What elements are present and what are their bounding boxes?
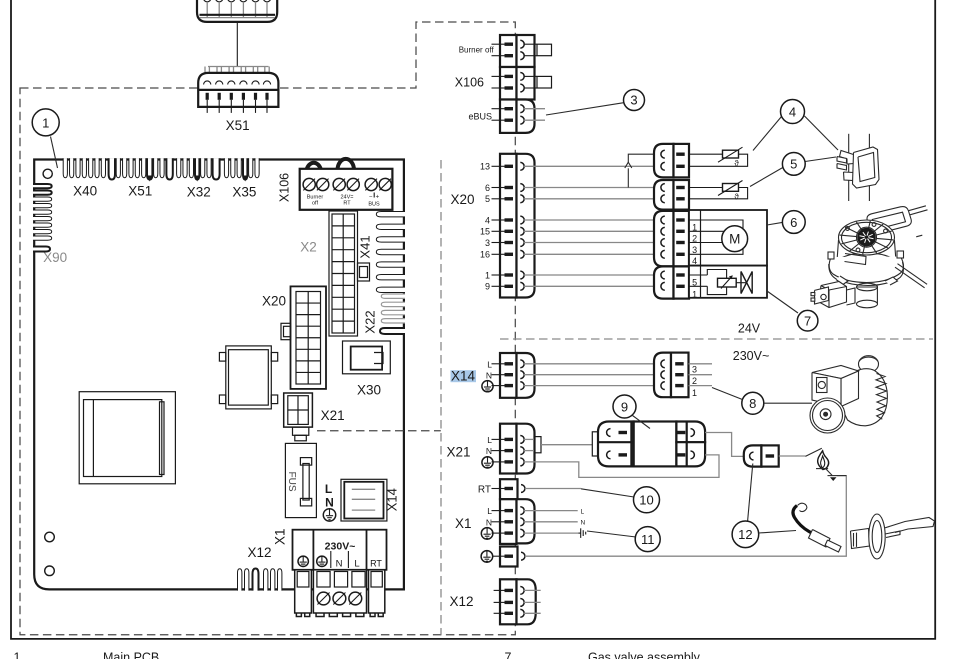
module 9 bracket (592, 432, 598, 456)
svg-text:N: N (325, 496, 334, 510)
svg-text:ϑ: ϑ (734, 193, 739, 202)
X51 divider (198, 89, 278, 91)
relay (226, 346, 271, 409)
callout line 9 (633, 416, 651, 429)
X20 pin 3 (492, 242, 506, 244)
edge finger slot (95, 158, 99, 178)
edge notch (195, 158, 199, 179)
fan flange ring (829, 257, 903, 283)
plug cup 1 (203, 0, 211, 2)
edge finger slot (129, 158, 133, 178)
NTC resistor (723, 184, 739, 192)
plug cup 2 (215, 0, 223, 2)
callout line 1 (51, 137, 58, 169)
X14 highlight (451, 370, 477, 382)
X20 pin 16 (492, 253, 506, 255)
connector X21 schematic (500, 424, 517, 474)
X14 earth symbol (482, 381, 493, 392)
earth symbol pcb (323, 509, 335, 521)
module 9 right connector (676, 422, 705, 443)
X51 pin (230, 93, 233, 100)
wire X20-13 to NTC1 (524, 165, 662, 167)
edge finger slot (207, 158, 211, 178)
NTC leads (689, 187, 723, 189)
callout line 12b (759, 531, 796, 534)
svg-text:24V=: 24V= (341, 194, 354, 200)
ignition cable (793, 506, 813, 534)
valve wires (689, 274, 707, 276)
pump connector pair (654, 353, 671, 398)
earth glyph wire end (579, 532, 581, 534)
mated pin (661, 195, 665, 203)
mated pin (661, 216, 665, 224)
svg-text:7: 7 (505, 651, 512, 659)
svg-text:X2: X2 (300, 240, 317, 255)
X14 pin (492, 363, 506, 365)
svg-text:N: N (486, 370, 492, 380)
svg-text:X1: X1 (455, 516, 472, 531)
callout 9 (613, 395, 636, 418)
mated pin (661, 282, 665, 290)
plug base lines (200, 14, 276, 16)
electrode flange (869, 514, 885, 559)
edge finger slot (224, 158, 228, 178)
connector X20 schematic (500, 154, 517, 298)
X51 socket cup (240, 81, 247, 85)
svg-text:X14: X14 (451, 369, 476, 384)
svg-text:X22: X22 (363, 310, 378, 333)
X51 socket cup (228, 81, 235, 85)
motor M (722, 226, 748, 252)
connector X14 schematic (500, 353, 517, 398)
X21 pin (492, 461, 506, 463)
connector X106 schematic section burner-off (500, 35, 517, 67)
svg-text:Burner off: Burner off (459, 46, 495, 55)
X21 pcb tab (293, 427, 309, 435)
fan wires (689, 220, 743, 229)
svg-text:1: 1 (14, 651, 21, 659)
mated pin (661, 271, 665, 279)
svg-text:1: 1 (692, 289, 697, 299)
svg-text:RT: RT (478, 485, 491, 496)
mated connector pair (654, 180, 674, 210)
comb arrow (243, 176, 248, 182)
mated pin (661, 227, 665, 235)
svg-text:10: 10 (639, 493, 653, 508)
mounting hole bottom-left 2 (45, 566, 55, 576)
X1 pin (492, 510, 506, 512)
X106 pin (492, 55, 506, 57)
X106 pin (492, 108, 506, 110)
wire X20-15 (524, 230, 662, 232)
X106 pin (492, 43, 506, 45)
valve frame (707, 270, 726, 295)
X51 socket cup (216, 81, 223, 85)
burner-off jumper (524, 43, 537, 45)
callout lines 5 (750, 168, 783, 187)
svg-text:Burner: Burner (307, 194, 324, 200)
svg-text:RT: RT (370, 559, 382, 569)
connector X30 (343, 341, 391, 374)
fan label plate (845, 254, 867, 265)
X51 pin (206, 93, 209, 100)
callout 6 (782, 211, 805, 234)
connector PE (500, 547, 518, 567)
svg-text:X14: X14 (385, 488, 400, 511)
svg-text:16: 16 (480, 250, 490, 260)
svg-text:N: N (336, 558, 343, 569)
svg-text:11: 11 (641, 532, 655, 547)
svg-text:X51: X51 (128, 184, 152, 199)
edge notch (213, 158, 220, 179)
X12 pin (494, 589, 505, 591)
edge finger slot (201, 158, 205, 178)
mounting hole top-left (43, 169, 52, 178)
svg-text:1: 1 (692, 388, 697, 398)
plug cup 5 (252, 0, 260, 2)
edge finger slot (237, 158, 241, 178)
svg-text:N: N (486, 517, 492, 527)
callout 10 (634, 487, 660, 513)
callout line 7 (767, 291, 798, 313)
NTC leads (689, 153, 723, 155)
branch wire to NTC1 top (627, 168, 629, 187)
X51 prong (252, 67, 254, 80)
mounting hole bottom-left 1 (45, 532, 55, 542)
terminal block X106 wire hoops (307, 163, 322, 170)
callout 1 (32, 109, 59, 136)
mated connector pair (654, 266, 674, 298)
X51 prong (264, 67, 266, 80)
edge connector X12 (bottom edge) (238, 569, 242, 591)
callout line 8a (712, 388, 742, 400)
X106 pin (492, 87, 506, 89)
svg-text:L: L (354, 558, 359, 569)
edge notch (109, 158, 115, 179)
pump connector pin (661, 382, 665, 390)
clip sensor bracket (840, 151, 856, 165)
X51 prong (216, 67, 218, 80)
clip sensor plate (853, 147, 880, 188)
RT lead (525, 488, 581, 490)
X51 socket cup (263, 81, 270, 85)
clip prong 1 (837, 157, 847, 164)
mated pin (661, 239, 665, 247)
venturi top pipe (888, 206, 926, 217)
wire X20-9 (524, 285, 662, 287)
X51 socket cup (204, 81, 211, 85)
module 9 top out wire (705, 433, 744, 457)
svg-text:X32: X32 (187, 185, 211, 200)
dashed border of main-PCB zone (20, 22, 515, 635)
X106 pin (492, 119, 506, 121)
svg-text:24V: 24V (738, 322, 761, 336)
svg-text:Main PCB: Main PCB (103, 651, 159, 659)
plug cup 6 (263, 0, 271, 2)
svg-text:off: off (312, 201, 318, 207)
wire X20-16 (524, 253, 662, 255)
mated pin (661, 184, 665, 192)
connector X41 body small (358, 263, 370, 281)
mated pin (661, 162, 665, 170)
edge notch (166, 158, 172, 179)
mated pin (661, 250, 665, 258)
X20 pin 6 (492, 187, 506, 189)
X51 pin (218, 93, 221, 100)
pump knob (859, 356, 879, 373)
svg-text:M: M (729, 232, 740, 247)
svg-text:13: 13 (480, 162, 490, 172)
X21 pin (492, 438, 506, 440)
plug cup 4 (240, 0, 248, 2)
clip foot (844, 172, 854, 181)
X1 screws (317, 592, 330, 605)
wire X14 N (524, 374, 662, 376)
svg-text:6: 6 (790, 215, 797, 230)
svg-text:X51: X51 (226, 118, 250, 133)
svg-text:12: 12 (738, 527, 752, 542)
gas valve body item 7 (819, 282, 847, 308)
edge finger slot (255, 158, 259, 178)
X14 pin (492, 374, 506, 376)
edge finger slot (177, 158, 181, 178)
edge finger slot (70, 158, 74, 178)
fan body lower (837, 240, 897, 268)
spark gap (805, 448, 821, 456)
svg-text:15: 15 (480, 227, 490, 237)
wire plug to X51 (236, 22, 238, 67)
X51 prong (240, 67, 242, 80)
svg-text:Gas valve assembly: Gas valve assembly (588, 651, 701, 659)
svg-text:4: 4 (692, 256, 697, 266)
svg-text:8: 8 (749, 396, 756, 411)
svg-text:X106: X106 (278, 173, 292, 202)
lower cylinder (857, 287, 878, 304)
gas valve box (689, 266, 767, 298)
callout 7 (797, 310, 818, 331)
connector X51 prong bar (208, 66, 269, 68)
edge connector X22 (right edge) (381, 294, 405, 298)
svg-text:ϑ: ϑ (734, 159, 739, 168)
edge finger slot (154, 158, 158, 178)
X20 pin 9 (492, 285, 506, 287)
transformer (79, 392, 175, 484)
svg-text:4: 4 (485, 215, 490, 225)
edge finger slot (76, 158, 80, 178)
wire X20-6 to NTC2 with branch (524, 187, 662, 189)
svg-text:230V~: 230V~ (733, 349, 770, 363)
mated pin (661, 150, 665, 158)
callout 5 (782, 153, 805, 176)
pipe lines (848, 134, 850, 201)
module 9 left pins (607, 429, 611, 437)
edge finger slot (123, 158, 127, 178)
PE wire to burner ground (525, 476, 847, 557)
callout lines 4 (753, 117, 782, 151)
pump motor head (810, 398, 845, 433)
wire X21-L to module (541, 444, 592, 446)
main PCB board outline (34, 160, 404, 590)
X106 screws (303, 178, 315, 190)
wire X20-3 (524, 242, 662, 244)
edge finger slot (63, 158, 67, 178)
callout 12 (732, 521, 759, 548)
svg-text:5: 5 (790, 157, 797, 172)
svg-text:X12: X12 (450, 594, 474, 609)
module 9 body (598, 422, 634, 467)
svg-text:X30: X30 (357, 383, 381, 398)
svg-text:X21: X21 (447, 445, 471, 460)
X106 middle jumper (524, 75, 537, 77)
svg-text:X40: X40 (73, 184, 97, 199)
electrode rods (885, 518, 935, 533)
edge connector X41 (right edge) (376, 212, 405, 217)
callout 11 (635, 527, 660, 552)
clip prong 2 (837, 164, 847, 171)
X51 prong (228, 67, 230, 80)
svg-text:X12: X12 (247, 545, 271, 560)
plug cup 3 (228, 0, 236, 2)
pump fins (876, 374, 887, 420)
fuse holder FUS (285, 443, 316, 517)
svg-text:X1: X1 (272, 528, 287, 545)
valve coil (718, 278, 737, 287)
fan hub (857, 227, 877, 247)
wire X14 PE (524, 385, 662, 387)
callout 3 (624, 90, 645, 111)
X51 socket cup (252, 81, 259, 85)
pump leads (689, 363, 713, 365)
mated connector pair (654, 211, 674, 267)
svg-text:9: 9 (621, 399, 628, 414)
ignition cable boot (809, 530, 831, 548)
ignition connector pair (744, 445, 762, 466)
callout line 10 (581, 489, 634, 497)
X1 pin (492, 521, 506, 523)
callout line 12a (748, 464, 753, 522)
edge finger slot (116, 158, 120, 178)
svg-text:X35: X35 (232, 185, 256, 200)
svg-text:6: 6 (485, 183, 490, 193)
connector X51 body (198, 73, 278, 107)
svg-text:2: 2 (692, 376, 697, 386)
X21 earth symbol (482, 457, 493, 468)
fan face details (846, 227, 850, 231)
X1 earth symbols (298, 556, 308, 566)
edge notch (147, 158, 152, 179)
mated connector pair (654, 144, 674, 178)
X1 earth symbol sch (481, 528, 493, 540)
right pipe (898, 264, 928, 285)
NTC resistor (723, 150, 739, 158)
svg-text:N: N (581, 520, 586, 527)
terminal block X1 body (293, 530, 387, 570)
callout line 6 (767, 222, 783, 225)
edge notch (243, 158, 247, 179)
X21 output bracket (524, 438, 535, 440)
edge finger slot (160, 158, 164, 178)
svg-text:X41: X41 (358, 235, 373, 258)
fan box (689, 210, 767, 266)
connector X21 pcb (284, 393, 313, 427)
svg-text:1: 1 (485, 270, 490, 280)
dashed link X21 to zone (317, 430, 441, 432)
flame base (816, 468, 828, 470)
svg-text:9: 9 (485, 282, 490, 292)
terminal block X106 body (300, 169, 393, 210)
flange tabs (828, 252, 834, 259)
edge finger slot (135, 158, 139, 178)
callout line 11 (587, 531, 636, 537)
callout 8 (742, 392, 764, 414)
connector X12 schematic (500, 579, 517, 624)
X51 prong (204, 67, 206, 80)
X14 pin (492, 385, 506, 387)
connector X14 pcb (341, 479, 387, 521)
edge finger slot (231, 158, 235, 178)
valve-fan link parts (847, 288, 856, 305)
X1 pin (492, 532, 506, 534)
svg-text:4: 4 (789, 104, 796, 119)
pump housing (842, 369, 888, 426)
wire X20-1 (524, 274, 662, 276)
svg-text:L: L (487, 435, 492, 445)
svg-text:7: 7 (804, 314, 811, 329)
X20 pin 13 (492, 165, 506, 167)
svg-text:5: 5 (485, 194, 490, 204)
connector X20 pcb (291, 286, 327, 389)
gas valve coil connector (815, 287, 829, 304)
edge finger slot (89, 158, 93, 178)
X1 terminal cages (295, 570, 312, 613)
electrode body (851, 529, 870, 549)
edge finger slot (82, 158, 86, 178)
edge finger slot (101, 158, 105, 178)
svg-text:230V~: 230V~ (325, 541, 356, 553)
venturi handle (867, 207, 911, 234)
dashed separator 24V/230V (500, 338, 933, 340)
svg-text:X20: X20 (451, 192, 475, 207)
clip plate inner (858, 153, 875, 182)
svg-text:FUS: FUS (286, 472, 297, 492)
valve symbol (741, 272, 747, 294)
wire X20-5 (524, 198, 662, 200)
svg-text:3: 3 (692, 365, 697, 375)
edge connector X90 (left edge) (33, 184, 52, 188)
comb arrow (195, 176, 200, 182)
pump terminal box (812, 366, 859, 379)
X51 pin (254, 93, 257, 100)
X20 pin 1 (492, 274, 506, 276)
svg-text:3: 3 (692, 245, 697, 255)
svg-text:N: N (486, 446, 492, 456)
connector RT (500, 479, 518, 499)
callout line 3 (546, 103, 624, 115)
pump box window (817, 378, 828, 393)
ignition out wire (779, 455, 806, 457)
svg-text:L: L (581, 508, 585, 515)
edge finger slot (249, 158, 253, 178)
svg-text:3: 3 (485, 238, 490, 248)
PE earth symbol (481, 551, 493, 563)
X20 pin 5 (492, 198, 506, 200)
fan top ellipse (839, 220, 895, 255)
edge finger slot (183, 158, 187, 178)
X51 pin (265, 93, 268, 100)
svg-text:L: L (487, 506, 492, 516)
callout line 8b (764, 402, 812, 404)
dashed separator line low-voltage zone (440, 160, 442, 635)
